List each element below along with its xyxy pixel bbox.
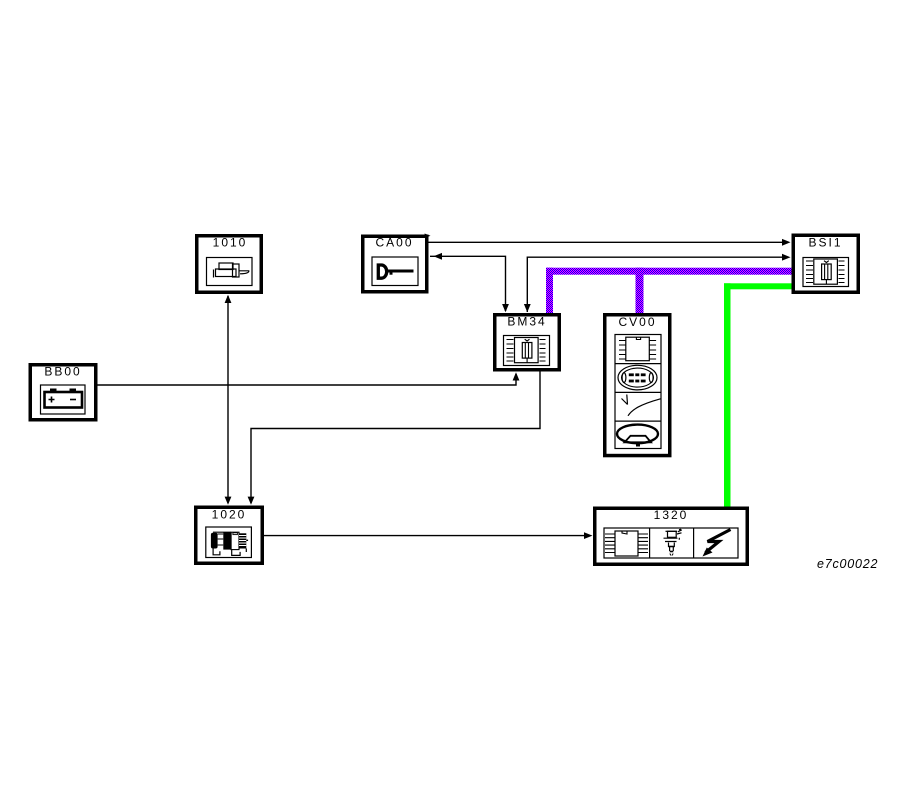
svg-text:CV00: CV00 (618, 315, 656, 329)
arrowhead into BM34 top left (502, 304, 509, 312)
arrowhead into BSI1 second wire (782, 254, 791, 261)
arrowhead into 1020 top right (248, 497, 255, 505)
component BSI1 box (793, 235, 858, 292)
wire green BSI1 to 1320 (724, 283, 792, 506)
svg-text:1320: 1320 (654, 508, 689, 522)
wire BB00 to BM34 bottom (98, 374, 517, 385)
arrowhead into CA00 (434, 253, 443, 260)
lightning bolt icon 1320 (706, 530, 731, 553)
svg-text:e7c00022: e7c00022 (817, 557, 878, 571)
connector icon CV00 (618, 365, 657, 390)
arrowhead into 1020 top left (225, 497, 232, 505)
wire purple branch to CV00 (636, 268, 644, 313)
chip icon CV00 (626, 337, 650, 361)
steering wheel icon CV00 (617, 425, 658, 444)
wire 1020 to 1320 (264, 535, 587, 537)
component 1010 starter motor box (197, 236, 262, 293)
injector icon 1320 (664, 529, 682, 551)
component BM34 fuse box (495, 315, 560, 370)
svg-text:1020: 1020 (212, 508, 247, 522)
svg-text:CA00: CA00 (375, 236, 413, 250)
component 1020 alternator box (196, 507, 263, 563)
wire CA00 to BM34 top (430, 256, 506, 311)
arrowhead into BSI1 top wire (782, 239, 791, 246)
svg-text:BSI1: BSI1 (808, 236, 842, 250)
arrowhead into 1320 left (584, 532, 593, 539)
svg-text:BM34: BM34 (507, 315, 546, 329)
wire CA00 to BSI1 (429, 241, 786, 243)
wire 1010 to 1020 (227, 296, 229, 503)
svg-text:1010: 1010 (213, 236, 248, 250)
component CV00 steering column box (605, 315, 670, 456)
arrowhead into BM34 bottom (513, 372, 520, 380)
wire BSI1 to BM34 top (527, 257, 785, 312)
stalk icon CV00 (622, 395, 661, 416)
wire BM34 bottom to 1020 top (251, 372, 540, 504)
component CA00 ignition switch box (363, 236, 427, 292)
arrowhead into 1010 bottom (225, 295, 232, 303)
arrowhead at CA00 corner (425, 234, 431, 239)
component BB00 battery box (30, 365, 96, 420)
chip icon 1320 (615, 531, 638, 556)
wire purple BM34 to BSI1 (546, 268, 792, 313)
arrowhead into BM34 top right (524, 304, 531, 312)
component 1320 engine ECU box (595, 508, 748, 564)
svg-text:BB00: BB00 (44, 365, 81, 379)
